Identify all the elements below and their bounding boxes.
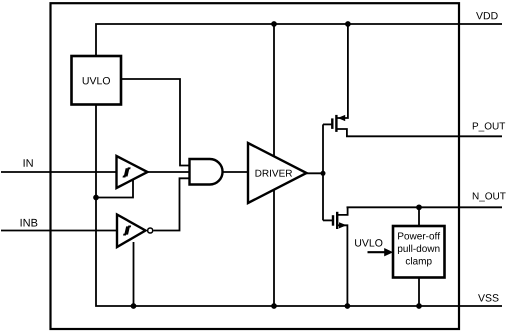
wire clamp box to VSS (418, 277, 420, 306)
wire INB inverter output to AND gate bottom input (154, 178, 190, 230)
node junction DRIVER power on VDD (271, 21, 277, 27)
gate U4 AND gate (190, 159, 223, 185)
net P_OUT rail (346, 135, 502, 137)
wire IN buffer ground tap (96, 180, 133, 198)
wire AND gate output to DRIVER input (223, 171, 249, 173)
transistor Q1 P-channel MOSFET (323, 24, 348, 136)
buffer U2 IN Schmitt buffer (117, 156, 148, 188)
net N_OUT rail (347, 206, 503, 208)
node junction clamp on VSS (416, 303, 422, 309)
wire gate drive vertical to both MOSFET gates (322, 124, 324, 220)
wire INB inverter ground tap (133, 242, 135, 306)
node junction clamp on N_OUT (416, 204, 422, 210)
block UVLO (72, 56, 122, 105)
node junction Q1 source on VDD (345, 21, 351, 27)
label INB (21, 219, 38, 227)
wire UVLO arrow into clamp (368, 248, 394, 256)
net VSS rail (96, 105, 502, 307)
block Power-off pull-down clamp (393, 226, 445, 278)
label VSS (478, 294, 498, 301)
label IN (24, 159, 33, 167)
IC boundary box (51, 3, 460, 329)
inverter U3 INB Schmitt inverter (117, 215, 153, 248)
wire DRIVER output to gates node (307, 172, 324, 174)
node junction Q2 source on VSS (345, 303, 351, 309)
node junction inverter tap on VSS (131, 303, 137, 309)
label UVLO signal to clamp (355, 239, 382, 246)
node junction on UVLO ground line (93, 195, 99, 201)
transistor Q2 N-channel MOSFET (323, 207, 348, 306)
wire IN buffer output to AND gate (147, 171, 190, 173)
label N_OUT (473, 192, 506, 201)
node junction DRIVER power on VSS (271, 303, 277, 309)
label VDD (476, 12, 498, 19)
wire INB lead (1, 230, 118, 232)
wire IN lead (1, 171, 118, 173)
wire DRIVER power rail VDD to VSS (273, 24, 275, 306)
node junction gate drive (321, 171, 326, 176)
wire UVLO output to AND gate top input (121, 79, 190, 166)
op-amp U1 DRIVER triangle (248, 143, 307, 203)
wire clamp box to N_OUT (418, 207, 420, 226)
net VDD rail (96, 24, 502, 56)
label P_OUT (473, 122, 505, 131)
